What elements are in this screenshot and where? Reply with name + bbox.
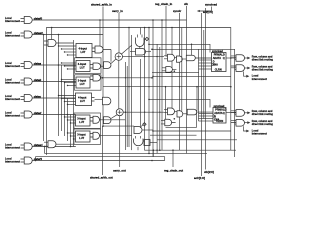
junction reg1 aux [174, 118, 176, 120]
wire G7 output [100, 135, 132, 137]
mux gate G1 after 3-LUT top-A [90, 65, 93, 69]
wire ctrl V x=144.6 [145, 28, 236, 151]
group box bottom 3-LUT B [74, 129, 101, 144]
svg-text:reg_chain_out: reg_chain_out [164, 169, 183, 173]
svg-text:shared_arith_in: shared_arith_in [91, 3, 112, 7]
svg-text:aclr[1:0]: aclr[1:0] [194, 176, 205, 180]
junction on dataf0 at x=100 [99, 19, 101, 21]
wire reg0 Q output [226, 57, 236, 59]
wire reg1 bypass y=135.2 [150, 134, 197, 136]
junction on dataf1 at x=152 [151, 160, 153, 162]
register reg0 D flip-flop [212, 53, 227, 72]
wire carry_in vertical [118, 13, 120, 53]
LUT block 3-input top-A [76, 61, 90, 72]
adder0 circle [115, 53, 122, 60]
svg-text:syncload: syncload [214, 105, 225, 108]
mux gate S2 (datae1/dataf1 select) [48, 141, 56, 148]
mux gate M1 reg0 input a [164, 56, 168, 59]
junction on datab [61, 81, 63, 83]
wire clk vertical [186, 6, 188, 153]
diamond junction bottom [141, 125, 143, 127]
junction 129 top [128, 27, 130, 29]
LUT block 4-input bottom [76, 93, 92, 106]
mux gate M3 reg0 input c [186, 55, 195, 61]
svg-text:interconnect: interconnect [252, 78, 267, 81]
mux gate G6 after 3-LUT bottom-A [90, 118, 93, 122]
wire ctrl vertical x=205.5 (clk[2:0]) [205, 8, 207, 170]
input buffer IN2 (datae0) from local interconnect [5, 31, 43, 38]
carry box B2 [104, 117, 112, 124]
wire shared_arith_out vertical [102, 126, 104, 175]
wire G1 to B1 [101, 65, 104, 67]
wire ctrl V x=159.8 [159, 47, 161, 150]
carry box B1 [104, 62, 112, 69]
svg-text:interconnect: interconnect [5, 65, 20, 68]
output mux O3 reg1 row/col [231, 111, 236, 114]
wire bus V6 x=67.5 [67, 98, 69, 141]
carry mux cup1 [136, 38, 145, 47]
LUT block 3-input bottom-A [76, 115, 91, 126]
wire ctrl aclr vertical x=198.5 [198, 49, 200, 121]
wire mid horizontal y=86.7 [103, 86, 231, 88]
wire shared_arith_in vertical [102, 7, 104, 127]
input buffer IN6 (datad) from local interconnect [5, 111, 42, 118]
output mux O4 reg1 row/col [231, 121, 236, 124]
svg-text:Q: Q [223, 112, 225, 115]
input buffer IN8 (dataf1) from local interconnect [5, 157, 42, 164]
output mux O1 reg0 row/col [231, 56, 236, 59]
wire feedback y=49.3 into bypass column 2 [152, 49, 235, 157]
wire reg_chain_in vertical [166, 6, 168, 56]
carry mux cup2 [134, 139, 144, 146]
wire bus V1 x=43.5 [43, 35, 45, 142]
junction S1 drop [51, 27, 53, 29]
wire drop x=157.1 [156, 150, 158, 153]
mux gate G8 after 4-LUT bottom [92, 98, 95, 102]
svg-text:direct link routing: direct link routing [252, 69, 274, 72]
wire bus V4 x=61.5 [61, 65, 63, 131]
mux gate M7 reg1 input c [187, 109, 197, 115]
wire synclr vertical [179, 13, 181, 150]
wire feedback H y=153.4 [45, 152, 208, 154]
wire ctrl V x=131.6 [131, 35, 133, 150]
junction x160 y150 [159, 149, 161, 151]
junction 149 bottom [148, 153, 150, 155]
wire datae0 net [32, 34, 103, 36]
wire syncload with left arrow [200, 7, 212, 12]
svg-text:interconnect: interconnect [5, 147, 20, 150]
wire datac net [32, 97, 76, 99]
wire adder1 to reg1 mux [123, 111, 164, 113]
input buffer IN3 (dataa) from local interconnect [5, 61, 42, 68]
LUT block 3-input bottom-B [76, 131, 91, 142]
carry box B3 [144, 140, 150, 146]
svg-text:clk: clk [184, 2, 188, 6]
wire G6 output [100, 119, 126, 121]
wire dataa net [32, 64, 76, 66]
junction 153 top [152, 19, 154, 21]
junction reg0 aux [174, 70, 176, 72]
wire drop to mux S1 [51, 28, 53, 40]
LUT block 3-input top-B [76, 77, 90, 88]
svg-text:LUT: LUT [79, 121, 84, 124]
wires reg0 control stubs [199, 59, 212, 61]
wire datae1 net [32, 146, 76, 148]
wire ctrl vertical x=203.8 [203, 30, 205, 119]
wire local routing feed bottom y=131 [153, 130, 231, 132]
wire ctrl V x=181.8 [181, 28, 183, 111]
svg-text:interconnect: interconnect [5, 115, 20, 118]
wire ctrl V x=172 [171, 28, 173, 112]
diamond junction top [144, 39, 146, 40]
wire local routing out top [244, 72, 247, 77]
wire mid horizontal y=72.7 [152, 72, 199, 74]
svg-text:shared_arith_out: shared_arith_out [90, 176, 113, 180]
wire adder0 diagonal to carry mux [122, 45, 132, 54]
junction x157 y150 [156, 149, 158, 151]
wire row1 drop x=100 [99, 20, 101, 46]
wire bus V7 x=70.5 [70, 115, 72, 147]
wire top feedback y=27.5 into bypass column [47, 28, 231, 156]
svg-text:LUT: LUT [79, 137, 84, 140]
wire datad net [32, 114, 76, 116]
wire ctrl V x=153 [152, 20, 154, 157]
adder1 circle [116, 109, 123, 116]
wire ctrl V x=129 [128, 28, 130, 148]
svg-text:LUT: LUT [81, 51, 86, 54]
junction x153 y150 [153, 149, 155, 151]
wire ctrl V x=127.2 [126, 66, 128, 147]
wire ctrl V x=125.4 [124, 62, 126, 150]
svg-text:interconnect: interconnect [5, 82, 20, 85]
output mux O2 reg0 row/col [231, 66, 236, 69]
svg-text:syncload: syncload [205, 3, 217, 7]
mux gate M8 reg1 aux [165, 119, 172, 126]
wires reg1 control stubs [199, 113, 214, 115]
wire ctrl V x=191.5 [191, 44, 193, 55]
mux gate S1 (datae0/dataf0 select) [48, 40, 56, 47]
junction bypass1 [230, 86, 232, 88]
wire reg1 q feedback y=127.3 [166, 112, 197, 127]
mux gate G3 carry out select [136, 49, 146, 56]
wire B1 diagonal to adder0 [111, 59, 116, 64]
group box bottom 3-LUT A [74, 113, 101, 128]
wire reg_chain_out vertical [172, 150, 174, 167]
wire bus V5 x=64.5 [64, 82, 66, 137]
junction 172 top [171, 27, 173, 29]
mux gate M5 reg1 input a [164, 110, 168, 113]
wires LUT input stubs with junctions [59, 45, 76, 47]
mux gate M4 reg0 aux [166, 67, 173, 73]
mux gate G0 after 4-LUT top [92, 48, 95, 52]
svg-text:synclr: synclr [173, 9, 182, 13]
junction x153 y150b [153, 149, 155, 151]
wire dataf1 riser right [164, 157, 166, 161]
wire shared arith into G5 [103, 125, 134, 127]
svg-text:LUT: LUT [80, 100, 85, 103]
wire datae1 riser [44, 147, 46, 154]
mux gate M2 reg0 input b [177, 56, 183, 62]
wire ctrl V x=157.1 [156, 44, 158, 150]
svg-text:reg_chain_in: reg_chain_in [155, 2, 173, 6]
wire reg1 bypass y=139.8 [157, 139, 237, 141]
svg-text:aclr[1:0]: aclr[1:0] [203, 11, 213, 14]
junction loop left [165, 86, 167, 88]
wire local routing feed top y=76.3 [153, 75, 231, 77]
junction 144 top [144, 27, 146, 29]
svg-text:interconnect: interconnect [5, 161, 20, 164]
svg-text:clk[2:0]: clk[2:0] [204, 170, 214, 174]
wire bus V8 x=73.5 [73, 40, 75, 147]
wire feedback H y=156.6 [36, 156, 165, 158]
wire G2 output [101, 77, 153, 79]
junction on datae0 at x=43.5 [43, 34, 45, 36]
junction loop right [196, 86, 198, 88]
wire local routing out bottom [244, 126, 247, 131]
mux gate G7 after 3-LUT bottom-B [90, 134, 93, 138]
wire dataf1 net [32, 160, 165, 162]
junction on datad [67, 114, 69, 116]
wire mid loop left V x=165.5 [165, 87, 167, 120]
wire datab net [32, 81, 76, 83]
svg-text:carry_in: carry_in [112, 9, 123, 13]
group box top 3-LUT B [75, 75, 102, 90]
junction on datac [64, 97, 66, 99]
svg-text:interconnect: interconnect [252, 133, 267, 136]
junction 162 top [161, 19, 163, 21]
svg-text:interconnect: interconnect [5, 20, 20, 23]
svg-text:LUT: LUT [80, 66, 85, 69]
wire cup2 output down [137, 147, 139, 150]
wire adder0 to adder1 carry [118, 60, 120, 108]
svg-text:syncload: syncload [212, 50, 223, 53]
junction on datae1 [70, 146, 72, 148]
svg-text:carry_out: carry_out [113, 169, 126, 173]
input buffer IN1 (dataf0) from local interconnect [5, 16, 42, 23]
input buffer IN4 (datab) from local interconnect [5, 78, 42, 85]
svg-text:interconnect: interconnect [5, 35, 20, 38]
wire reg0 top control y=44.3 [149, 44, 210, 52]
group box top 3-LUT A [75, 58, 102, 74]
svg-text:direct link routing: direct link routing [252, 123, 274, 126]
mux gate G2 after 3-LUT top-B [90, 76, 93, 80]
junction adder1 out [125, 111, 127, 113]
svg-text:direct link routing: direct link routing [252, 113, 274, 116]
wire G5 output [142, 129, 153, 131]
svg-text:interconnect: interconnect [5, 98, 20, 101]
junction on dataa [58, 64, 60, 66]
input buffer IN7 (datae1) from local interconnect [5, 143, 43, 150]
wire reg1 top control y=99.4 [149, 99, 210, 107]
wire B2 diagonal to adder1 [111, 115, 117, 119]
wire ctrl vertical x=201.5 (aclr[1:0]) [201, 13, 203, 176]
svg-text:CLRN: CLRN [216, 120, 223, 123]
svg-text:direct link routing: direct link routing [252, 58, 274, 61]
wire mid loop right V x=197 [187, 87, 197, 111]
wire dataf0 net [32, 19, 187, 21]
wire drop x=153.3 [152, 150, 154, 156]
svg-text:LUT: LUT [80, 83, 85, 86]
LUT block 4-input top [76, 44, 92, 58]
wire dataf1 riser left [35, 157, 37, 161]
input buffer IN5 (datac) from local interconnect [5, 94, 42, 101]
svg-text:Q: Q [223, 57, 225, 60]
svg-text:CLRN: CLRN [215, 68, 222, 71]
wire ctrl V x=162 [161, 20, 163, 150]
wire carry_out vertical [119, 116, 121, 167]
junction y49 x152 [151, 49, 153, 51]
register reg1 D flip-flop [213, 108, 226, 124]
wire ctrl V x=140.5 [140, 28, 142, 129]
wire ctrl V x=149 [148, 28, 150, 154]
mux gate M6 reg1 input b [177, 111, 183, 117]
junction 149 top [148, 27, 150, 29]
wire adder0 to reg0 mux [123, 56, 165, 58]
junction on datae0 at x=58.5 [58, 34, 60, 36]
mux gate G5 with diamond [134, 127, 142, 134]
wire reg1 Q output [226, 112, 236, 114]
wire bus V3 x=58.5 [58, 35, 60, 137]
